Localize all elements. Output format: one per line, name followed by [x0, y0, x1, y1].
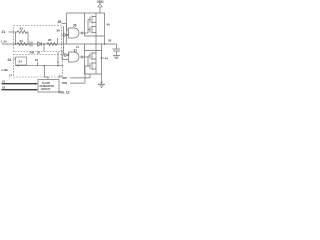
svg-text:CIRCUIT: CIRCUIT [41, 89, 51, 91]
wire vertical feed x63 [63, 26, 65, 55]
wire upper gate bus [87, 20, 89, 34]
svg-text:CLOCK: CLOCK [42, 83, 51, 85]
arrowhead 51 [36, 83, 39, 85]
arrowhead 52 [36, 89, 39, 91]
wire capacitor bottom stub [116, 51, 118, 55]
wire left rail vertical [15, 32, 17, 44]
junction dot d [57, 65, 58, 66]
junction dot output rail [104, 43, 106, 45]
resistor 26 [47, 43, 57, 46]
resistor 24 [17, 43, 27, 46]
wire input 21 lead [9, 31, 16, 33]
gate 30 output bubble [81, 32, 83, 34]
svg-text:GENERATOR: GENERATOR [40, 85, 55, 88]
wire gate30 input B lead [62, 34, 69, 36]
junction dot branch join [27, 43, 29, 45]
wire vertical x62 [61, 50, 63, 60]
wire stub down from diode node [43, 44, 45, 52]
dashed box 28 outline [14, 26, 62, 52]
wire arrow drop x58 [57, 52, 59, 66]
inverter bubble gate30 input B [64, 34, 67, 37]
wire signal 45 elbow [70, 74, 90, 78]
svg-text:24b: 24b [30, 50, 35, 54]
transistor upper NMOS [90, 26, 96, 34]
svg-text:44: 44 [105, 57, 109, 61]
gate 31 NAND body [69, 52, 80, 62]
wire VDD vertical [99, 7, 101, 13]
svg-text:30: 30 [73, 24, 77, 28]
wire branch join vertical [27, 32, 29, 44]
svg-text:40: 40 [107, 23, 111, 27]
wire VDD rail drop left [66, 13, 68, 44]
wire main lower horizontal [2, 43, 117, 45]
ground symbol [100, 82, 102, 84]
wire control box up [45, 66, 49, 80]
driver box 40 outline [85, 13, 105, 36]
transistor lower NMOS gate lead [85, 65, 90, 67]
svg-text:13: 13 [76, 45, 79, 49]
control box 50 [38, 80, 59, 93]
capacitor 43 plates [113, 49, 121, 51]
svg-text:FIG. 12: FIG. 12 [59, 91, 70, 95]
diode D1 [38, 42, 42, 46]
wire gate30 output [83, 32, 88, 34]
svg-text:28: 28 [58, 20, 62, 24]
wire VDD rail horizontal [67, 12, 105, 14]
wire signal 46 elbow [70, 66, 85, 83]
junction dot diode [43, 43, 45, 45]
transistor lower PMOS [90, 52, 96, 60]
gate 30 NAND body [69, 28, 80, 38]
transistor upper NMOS gate lead [88, 29, 90, 31]
arrowhead x58 [57, 62, 59, 64]
wire output corner down [116, 44, 118, 49]
junction dot left rail [15, 43, 17, 45]
svg-text:23: 23 [20, 27, 24, 31]
wire signal 51 [2, 83, 37, 85]
svg-text:20: 20 [108, 39, 112, 43]
svg-text:24: 24 [19, 60, 23, 64]
wire gate31 input A lead [64, 54, 65, 56]
power VDD terminal triangle [98, 4, 102, 7]
tick 24b [37, 62, 39, 66]
wire gate31 output [83, 56, 88, 58]
svg-text:26: 26 [48, 38, 52, 42]
svg-text:45P: 45P [62, 76, 67, 80]
transistor lower NMOS [90, 62, 96, 70]
wire jog to box edge [62, 23, 67, 25]
resistor 23 [16, 31, 29, 34]
svg-text:22: 22 [8, 58, 12, 62]
driver box 43 outline [85, 51, 102, 75]
svg-text:L 24: L 24 [1, 40, 7, 44]
svg-text:27: 27 [9, 74, 12, 78]
transistor upper PMOS [90, 16, 96, 24]
svg-text:VDD: VDD [97, 0, 104, 4]
transistor upper PMOS gate lead [88, 19, 90, 21]
capacitor 25 [30, 42, 32, 47]
wire input 22 lead [14, 58, 16, 60]
transistor lower PMOS gate lead [88, 55, 90, 57]
gate 31 output bubble [81, 56, 83, 58]
svg-text:45N: 45N [62, 81, 67, 85]
junction dot a [17, 65, 18, 66]
svg-text:26: 26 [57, 29, 61, 33]
wire gate31 input B lead [62, 59, 68, 61]
ground capacitor bars [113, 56, 120, 59]
wire upper drain bus [95, 13, 97, 44]
svg-text:25: 25 [37, 50, 40, 54]
svg-text:24: 24 [35, 58, 39, 62]
wire stub vertical x57 [57, 38, 59, 44]
svg-text:21: 21 [2, 30, 6, 34]
svg-text:L12b: L12b [2, 68, 9, 72]
wire rail to lower box [84, 44, 86, 51]
wire signal 52 [2, 89, 37, 91]
junction dot c [43, 65, 44, 66]
junction dot node 44 [101, 57, 103, 59]
wire lower drain bus [95, 44, 97, 74]
delay box 24a [16, 57, 27, 65]
wire lower gate bus [87, 56, 89, 66]
wire source rail vertical [101, 44, 103, 84]
wire lower block horizontal [16, 65, 64, 67]
wire gate30 input A [67, 24, 69, 31]
wire right rail to output [104, 36, 106, 44]
inverter bubble gate31 input A [65, 54, 68, 57]
label 44 lead [102, 57, 105, 59]
dashed box 27 outline [14, 55, 63, 78]
